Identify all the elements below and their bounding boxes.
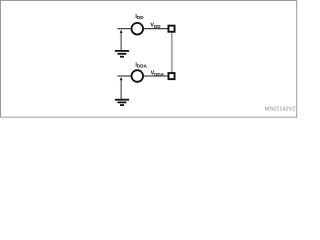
label IDDA	[135, 62, 147, 68]
wire top-left stub	[117, 28, 130, 30]
label VDD	[150, 22, 161, 29]
ground	[115, 51, 129, 57]
ground	[115, 100, 129, 105]
wire between pins	[171, 33, 173, 72]
pin VDD	[168, 26, 174, 32]
svg-text:DDA: DDA	[154, 72, 165, 77]
svg-text:DDA: DDA	[137, 63, 148, 68]
ammeter IDDA	[132, 70, 144, 82]
svg-text:MS02142V2: MS02142V2	[265, 107, 296, 113]
wire VDDA	[144, 75, 167, 77]
wire VDD	[144, 28, 168, 30]
label IDD	[135, 14, 144, 20]
wire bottom-left stub	[117, 75, 130, 77]
pin VDDA	[168, 73, 174, 79]
supply arrow VDD source	[120, 30, 123, 51]
supply arrow VDDA source	[120, 77, 123, 99]
svg-text:DD: DD	[154, 24, 161, 29]
label VDDA	[151, 71, 165, 78]
svg-text:DD: DD	[137, 15, 144, 20]
ammeter IDD	[132, 23, 144, 35]
